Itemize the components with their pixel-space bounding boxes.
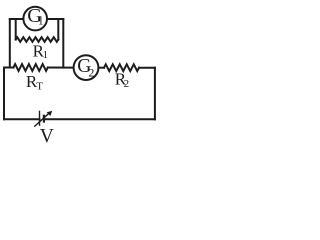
svg-text:2: 2 bbox=[124, 78, 130, 90]
svg-text:1: 1 bbox=[38, 16, 44, 28]
svg-text:1: 1 bbox=[43, 49, 49, 61]
svg-text:V: V bbox=[40, 126, 54, 147]
svg-text:2: 2 bbox=[88, 65, 94, 79]
svg-text:T: T bbox=[36, 80, 43, 92]
